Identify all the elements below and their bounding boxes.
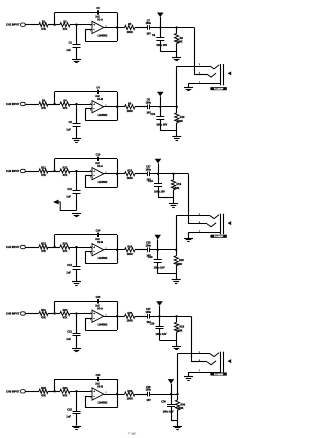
- svg-text:100u 16V: 100u 16V: [163, 411, 174, 414]
- junction resistor node: [175, 249, 177, 251]
- wire R1 to R2: [48, 247, 60, 249]
- ground: [72, 426, 81, 428]
- svg-text:47K: 47K: [63, 173, 68, 177]
- svg-text:100u: 100u: [146, 244, 152, 247]
- svg-text:47K: 47K: [41, 173, 46, 177]
- capacitor C10 shunt: [160, 107, 162, 117]
- svg-text:1uF: 1uF: [66, 270, 71, 274]
- node A junction: [53, 170, 55, 172]
- ground: [72, 138, 81, 140]
- output junction: [116, 249, 118, 251]
- svg-text:47K: 47K: [63, 27, 68, 31]
- capacitor C9 shunt: [160, 28, 162, 38]
- capacitor C17 series: [147, 172, 149, 177]
- wire input to R: [25, 391, 39, 393]
- svg-text:CH2 INPUT: CH2 INPUT: [6, 102, 20, 106]
- ground: [188, 83, 190, 87]
- svg-text:U1-B: U1-B: [97, 97, 103, 101]
- svg-text:100K: 100K: [176, 263, 182, 266]
- ring contact: [189, 223, 208, 225]
- svg-text:LM4562: LM4562: [98, 323, 108, 327]
- svg-text:47K: 47K: [63, 249, 68, 253]
- sleeve contact: [189, 83, 221, 85]
- wire riser to jack: [177, 354, 179, 394]
- wire R3 to cap: [135, 316, 147, 318]
- feedback vertical at output: [117, 13, 119, 42]
- wire riser to jack: [176, 216, 178, 250]
- resistor R6: [125, 105, 136, 109]
- jack X2: [176, 214, 231, 242]
- svg-text:C21: C21: [67, 330, 72, 334]
- input port J5: [21, 312, 26, 315]
- svg-text:100K: 100K: [177, 329, 183, 332]
- svg-text:C3: C3: [96, 6, 100, 10]
- svg-text:47K: 47K: [41, 316, 46, 320]
- feedback wire node A up: [54, 301, 56, 313]
- capacitor C8 series: [147, 105, 149, 110]
- supply arrow: [158, 163, 160, 173]
- capacitor C22 to ground: [76, 391, 78, 411]
- resistor R1: [39, 23, 48, 27]
- wire cap to riser: [149, 249, 176, 251]
- node B junction: [75, 170, 77, 172]
- input port J2: [21, 102, 26, 105]
- op-amp output wire: [104, 27, 125, 29]
- resistor R15: [125, 172, 136, 176]
- svg-text:R24: R24: [63, 386, 68, 390]
- svg-text:3: 3: [90, 171, 91, 173]
- ground rail: [160, 130, 177, 132]
- channel 2: [6, 66, 185, 143]
- wire R2 to op-amp: [70, 391, 92, 393]
- feedback top wire left: [55, 12, 98, 14]
- sleeve contact: [189, 232, 221, 234]
- wire input to R: [25, 171, 39, 173]
- wire input to R: [25, 104, 39, 106]
- input port J6: [21, 390, 26, 393]
- feedback top wire right: [99, 301, 117, 303]
- svg-text:CH4 INPUT: CH4 INPUT: [6, 245, 20, 249]
- svg-text:100u: 100u: [146, 22, 152, 25]
- svg-text:R16: R16: [127, 245, 132, 249]
- svg-text:PJ-3253F: PJ-3253F: [214, 374, 224, 376]
- resistor R24: [60, 389, 70, 393]
- svg-text:C11: C11: [67, 187, 72, 191]
- output junction: [116, 26, 118, 28]
- svg-text:100R: 100R: [127, 319, 133, 323]
- ground rail: [160, 51, 176, 53]
- svg-text:CH6 INPUT: CH6 INPUT: [6, 389, 20, 393]
- capacitor C19 shunt: [158, 174, 160, 184]
- ground rail: [160, 340, 177, 342]
- svg-text:C10: C10: [151, 113, 156, 116]
- svg-text:R26: R26: [127, 389, 132, 393]
- svg-text:C30: C30: [161, 401, 166, 404]
- svg-text:47K: 47K: [63, 106, 68, 110]
- ground: [72, 281, 81, 283]
- feedback vertical at output: [117, 159, 119, 188]
- junction supply node: [157, 173, 159, 175]
- svg-text:LM4562: LM4562: [98, 256, 108, 260]
- svg-text:100u 16V: 100u 16V: [156, 123, 167, 126]
- svg-text:3: 3: [199, 222, 200, 224]
- wire R1 to R2: [48, 104, 60, 106]
- svg-text:100K: 100K: [178, 407, 184, 410]
- svg-text:LM4562: LM4562: [98, 180, 108, 184]
- svg-text:R13: R13: [41, 242, 46, 246]
- feedback top wire right: [99, 234, 117, 236]
- resistor R14: [60, 245, 70, 249]
- svg-text:3: 3: [199, 72, 200, 74]
- svg-text:R2: R2: [63, 19, 67, 23]
- resistor R11: [39, 169, 48, 173]
- svg-text:C22: C22: [67, 407, 72, 411]
- wire R1 to R2: [48, 313, 60, 315]
- resistor R22: [60, 311, 70, 315]
- junction resistor node: [176, 393, 178, 395]
- svg-text:1: 1: [199, 370, 200, 372]
- svg-text:R20: R20: [179, 259, 184, 262]
- feedback vertical at output: [117, 235, 119, 264]
- svg-text:47K: 47K: [41, 27, 46, 31]
- jack label: [210, 373, 226, 376]
- svg-text:R9: R9: [180, 37, 184, 40]
- op-amp output wire: [104, 394, 125, 396]
- capacitor C4 feedback: [97, 90, 99, 94]
- op-amp output wire: [104, 106, 125, 108]
- svg-text:1uF: 1uF: [66, 194, 71, 198]
- capacitor C29 shunt: [159, 316, 161, 326]
- wire R3 to cap: [135, 27, 147, 29]
- resistor R26: [125, 392, 136, 396]
- input port J4: [21, 245, 26, 248]
- feedback wire node A up: [54, 379, 56, 391]
- resistor R10 shunt: [176, 107, 178, 113]
- junction supply node: [159, 26, 161, 28]
- svg-text:3: 3: [90, 247, 91, 249]
- svg-text:U1-A: U1-A: [97, 18, 103, 22]
- resistor R2: [60, 23, 70, 27]
- node A junction: [53, 312, 55, 314]
- resistor R23: [39, 389, 48, 393]
- svg-text:1: 1: [199, 230, 200, 232]
- feedback wire bottom: [85, 187, 117, 189]
- svg-text:2: 2: [90, 30, 91, 32]
- resistor R16: [125, 248, 136, 252]
- ground: [176, 52, 178, 58]
- supply arrow: [160, 96, 162, 106]
- svg-text:2: 2: [90, 176, 91, 178]
- inverting input stub: [85, 108, 92, 110]
- svg-text:100R: 100R: [127, 30, 133, 34]
- junction resistor node: [172, 173, 174, 175]
- ground: [188, 232, 190, 238]
- resistor R19 shunt: [173, 174, 175, 180]
- supply arrow: [159, 306, 161, 316]
- wire R2 to op-amp: [70, 24, 92, 26]
- svg-text:100K: 100K: [174, 187, 180, 190]
- svg-text:LM4562: LM4562: [98, 400, 108, 404]
- wire R1 to R2: [48, 24, 60, 26]
- junction resistor node: [176, 106, 178, 108]
- svg-text:2: 2: [90, 109, 91, 111]
- svg-text:C23: C23: [96, 295, 101, 299]
- svg-text:2: 2: [199, 352, 200, 354]
- input port J3: [21, 169, 26, 172]
- svg-text:PJ-3253F: PJ-3253F: [214, 236, 224, 238]
- node B junction: [75, 312, 77, 314]
- svg-text:100R: 100R: [127, 176, 133, 180]
- wire R1 to R2: [48, 391, 60, 393]
- feedback wire left vertical: [85, 109, 87, 121]
- wire R3 to cap: [135, 249, 147, 251]
- ground: [177, 420, 179, 426]
- svg-text:2: 2: [90, 252, 91, 254]
- resistor R21: [39, 311, 48, 315]
- wire cap to riser: [149, 394, 177, 396]
- capacitor C30 shunt: [171, 394, 173, 404]
- jack body: [220, 64, 222, 85]
- resistor R13: [39, 245, 48, 249]
- svg-text:R14: R14: [63, 242, 68, 246]
- svg-text:R1: R1: [42, 19, 46, 23]
- svg-text:47K: 47K: [41, 106, 46, 110]
- svg-text:U3-A: U3-A: [97, 307, 103, 311]
- svg-text:C12: C12: [67, 263, 72, 267]
- ground rail: [158, 273, 177, 275]
- output junction: [116, 173, 118, 175]
- resistor R9 shunt: [176, 28, 178, 34]
- svg-text:3: 3: [90, 104, 91, 106]
- resistor R25: [125, 314, 136, 318]
- svg-text:100u: 100u: [146, 101, 152, 104]
- svg-text:C14: C14: [96, 229, 101, 233]
- wire R3 to cap: [135, 106, 147, 108]
- ground: [173, 198, 175, 204]
- svg-text:47K: 47K: [63, 394, 68, 398]
- plug arrow: [228, 71, 232, 75]
- capacitor C12 to ground: [76, 247, 78, 267]
- output junction: [116, 106, 118, 108]
- op-amp output wire: [104, 173, 125, 175]
- wire R2 to op-amp: [70, 171, 92, 173]
- svg-text:R10: R10: [180, 116, 185, 119]
- feedback top wire left: [55, 91, 98, 93]
- wire cap to riser: [149, 316, 191, 318]
- svg-text:R3: R3: [42, 99, 46, 103]
- svg-text:R30: R30: [181, 404, 186, 407]
- capacitor C18 series: [147, 248, 149, 253]
- feedback wire bottom: [85, 407, 117, 409]
- ring contact: [191, 361, 207, 363]
- feedback wire left vertical: [85, 396, 87, 408]
- node A junction: [53, 103, 55, 105]
- capacitor C11 to ground: [76, 171, 78, 191]
- svg-text:3: 3: [90, 391, 91, 393]
- svg-text:C2: C2: [69, 120, 73, 124]
- svg-text:100u: 100u: [146, 389, 152, 392]
- capacitor C14 feedback: [97, 233, 99, 237]
- svg-text:2: 2: [90, 319, 91, 321]
- feedback top wire right: [99, 158, 117, 160]
- capacitor C23 feedback: [97, 299, 99, 303]
- wire input to R: [25, 313, 39, 315]
- svg-text:1uF: 1uF: [66, 48, 71, 52]
- wire cap to riser: [149, 106, 177, 108]
- tip contact: [176, 215, 210, 217]
- feedback vertical at output: [117, 379, 119, 408]
- svg-text:100u 16V: 100u 16V: [156, 333, 167, 336]
- svg-text:47K: 47K: [41, 394, 46, 398]
- svg-text:R22: R22: [63, 308, 68, 312]
- feedback top wire right: [99, 379, 117, 381]
- feedback wire bottom: [85, 120, 117, 122]
- inverting input stub: [85, 29, 92, 31]
- svg-text:R29: R29: [180, 326, 185, 329]
- input port J1: [21, 23, 26, 26]
- wire R3 to cap: [135, 394, 147, 396]
- jack X3: [178, 352, 232, 381]
- svg-text:PJ-3253F: PJ-3253F: [214, 89, 224, 91]
- feedback top wire left: [55, 379, 98, 381]
- wire cap to riser: [149, 173, 188, 175]
- capacitor C27 series: [147, 314, 149, 319]
- feedback wire node A up: [54, 92, 56, 104]
- wire R1 to R2: [48, 171, 60, 173]
- ground: [176, 131, 178, 137]
- svg-text:100K: 100K: [177, 41, 183, 44]
- node B junction: [75, 103, 77, 105]
- capacitor C3 feedback: [97, 10, 99, 14]
- svg-text:1uF: 1uF: [66, 127, 71, 131]
- svg-text:C24: C24: [96, 373, 101, 377]
- feedback wire node A up: [54, 13, 56, 25]
- jack label: [210, 87, 226, 90]
- svg-text:R25: R25: [127, 311, 132, 315]
- resistor R5: [125, 25, 136, 29]
- feedback wire bottom: [85, 330, 117, 332]
- channel 6: [6, 354, 186, 430]
- svg-text:C13: C13: [96, 153, 101, 157]
- net arrow AGND: [53, 200, 59, 205]
- jack body: [220, 352, 222, 374]
- node B junction: [75, 24, 77, 26]
- capacitor C2 to ground: [76, 104, 78, 124]
- svg-text:3: 3: [90, 313, 91, 315]
- svg-text:PCB: PCB: [128, 431, 137, 436]
- inverting input stub: [85, 396, 92, 398]
- svg-text:3: 3: [90, 24, 91, 26]
- jack label: [210, 235, 226, 238]
- svg-text:U3-B: U3-B: [97, 384, 103, 388]
- svg-text:1: 1: [106, 392, 107, 394]
- feedback vertical at output: [117, 92, 119, 121]
- feedback top wire left: [55, 301, 98, 303]
- svg-text:R21: R21: [41, 308, 46, 312]
- svg-text:C29: C29: [150, 323, 155, 326]
- inverting input stub: [85, 175, 92, 177]
- node B junction: [75, 390, 77, 392]
- feedback wire left vertical: [85, 252, 87, 264]
- wire R2 to op-amp: [70, 104, 92, 106]
- channel 4: [6, 216, 184, 286]
- svg-text:1: 1: [199, 82, 200, 84]
- tip contact: [177, 66, 210, 68]
- resistor R20 shunt: [176, 250, 178, 256]
- plug arrow: [228, 359, 232, 363]
- plug arrow: [228, 221, 232, 225]
- svg-text:100u: 100u: [146, 311, 152, 314]
- capacitor C21 to ground: [76, 314, 78, 334]
- svg-text:R11: R11: [41, 166, 46, 170]
- resistor R3: [39, 102, 48, 106]
- supply arrow: [157, 239, 159, 249]
- ground rail: [158, 197, 174, 199]
- svg-text:R15: R15: [127, 169, 132, 173]
- svg-text:C9: C9: [152, 34, 156, 37]
- junction supply node: [157, 249, 159, 251]
- node A junction: [53, 246, 55, 248]
- output junction: [116, 393, 118, 395]
- op-amp output wire: [104, 249, 125, 251]
- feedback top wire left: [55, 158, 98, 160]
- junction supply node: [159, 106, 161, 108]
- ground: [176, 340, 178, 346]
- capacitor C1 to ground: [76, 25, 78, 45]
- node A junction: [53, 24, 55, 26]
- feedback top wire right: [99, 91, 117, 93]
- ground: [72, 59, 81, 61]
- wire input to R: [25, 247, 39, 249]
- svg-text:100u: 100u: [146, 168, 152, 171]
- svg-text:LM4562: LM4562: [98, 113, 108, 117]
- feedback wire node A up: [54, 235, 56, 247]
- svg-text:R4: R4: [63, 99, 67, 103]
- svg-text:LM4562: LM4562: [98, 34, 108, 38]
- svg-text:16V: 16V: [146, 399, 151, 402]
- wire riser to jack: [191, 316, 193, 362]
- svg-text:3: 3: [199, 360, 200, 362]
- svg-text:CH3 INPUT: CH3 INPUT: [6, 169, 20, 173]
- wire R3 to cap: [135, 173, 147, 175]
- capacitor C13 feedback: [97, 157, 99, 161]
- capacitor C7 series: [147, 25, 149, 30]
- svg-text:100R: 100R: [127, 109, 133, 113]
- sleeve contact: [189, 372, 221, 374]
- wire riser to jack: [188, 174, 190, 224]
- wire riser to jack: [194, 28, 196, 75]
- svg-text:CH5 INPUT: CH5 INPUT: [6, 312, 20, 316]
- feedback wire node A up: [54, 159, 56, 171]
- op-amp output wire: [104, 316, 125, 318]
- jack X1: [177, 64, 231, 91]
- jack body: [220, 214, 222, 235]
- wire arrow to cap node: [59, 202, 77, 211]
- svg-text:100u 16V: 100u 16V: [154, 266, 165, 269]
- channel 5: [6, 295, 191, 362]
- feedback top wire left: [55, 234, 98, 236]
- svg-text:100K: 100K: [177, 120, 183, 123]
- feedback wire bottom: [85, 263, 117, 265]
- ground: [72, 348, 81, 350]
- wire R2 to op-amp: [70, 247, 92, 249]
- resistor R12: [60, 169, 70, 173]
- feedback wire left vertical: [85, 30, 87, 42]
- junction supply node: [170, 393, 172, 395]
- svg-text:CH1 INPUT: CH1 INPUT: [6, 23, 20, 27]
- ground: [72, 213, 81, 215]
- ring contact: [194, 74, 207, 76]
